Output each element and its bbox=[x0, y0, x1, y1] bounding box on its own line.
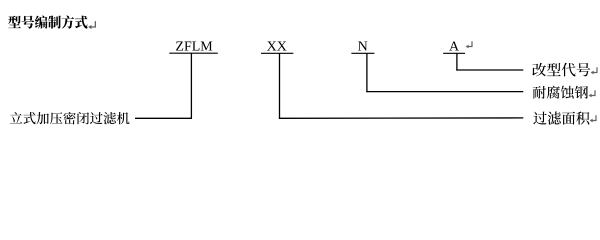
label 过滤面积 bbox=[533, 111, 589, 124]
underline below XX bbox=[261, 52, 293, 54]
paragraph return mark after title bbox=[88, 21, 95, 29]
label 立式加压密闭过滤机 bbox=[10, 112, 130, 125]
svg-text:XX: XX bbox=[267, 40, 287, 55]
paragraph return mark after code A bbox=[466, 41, 472, 48]
label 耐腐蚀钢 bbox=[533, 86, 588, 99]
wire: vertical from ZFLM underline down bbox=[190, 54, 192, 119]
underline below N bbox=[351, 52, 374, 54]
wire: horizontal from A vertical to label 改型代号 bbox=[456, 69, 523, 71]
wire: horizontal from XX vertical to label 过滤面积 bbox=[279, 117, 523, 119]
wire: vertical from A underline down bbox=[456, 54, 458, 71]
label 改型代号 bbox=[532, 63, 590, 77]
paragraph return mark after label 耐腐蚀钢 bbox=[589, 90, 595, 97]
svg-text:A: A bbox=[449, 40, 460, 55]
underline below ZFLM bbox=[169, 52, 218, 54]
paragraph return mark after label 改型代号 bbox=[591, 67, 597, 74]
svg-text:ZFLM: ZFLM bbox=[175, 40, 213, 55]
paragraph return mark after label 过滤面积 bbox=[590, 115, 596, 122]
svg-text:N: N bbox=[358, 40, 368, 55]
wire: horizontal from N vertical to label 耐腐蚀钢 bbox=[366, 91, 523, 93]
wire: vertical from XX underline down bbox=[279, 54, 281, 119]
title 型号编制方式 (bold) bbox=[8, 16, 87, 29]
wire: horizontal from label 立式加压密闭过滤机 to ZFLM vertical bbox=[135, 117, 192, 119]
underline below A bbox=[443, 52, 465, 54]
wire: vertical from N underline down bbox=[366, 54, 368, 93]
